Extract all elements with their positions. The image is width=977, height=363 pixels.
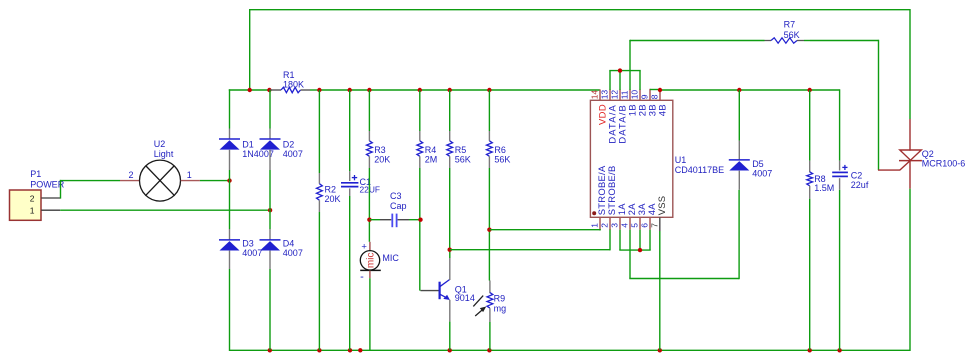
pin name 3A <box>636 203 647 216</box>
label R2 20K <box>325 185 341 205</box>
label D3 4007 <box>242 238 262 257</box>
label Q1 9014 <box>455 285 475 303</box>
wire Q1 emitter to ground <box>449 300 451 351</box>
capacitor C2 polarized <box>832 161 848 190</box>
lamp U2 <box>120 160 200 201</box>
wire node to U1 pin 2 <box>450 229 610 250</box>
svg-text:4007: 4007 <box>752 168 772 178</box>
pin number 9 <box>640 94 650 99</box>
wire pin 11 to R7 <box>629 41 631 90</box>
pin name STROBE/B <box>606 165 617 215</box>
pin number 12 <box>610 90 620 100</box>
wire R4 to Q1 base <box>419 168 421 291</box>
svg-text:56K: 56K <box>784 30 800 40</box>
svg-text:2M: 2M <box>425 154 438 164</box>
pin number 13 <box>600 90 610 100</box>
junction bottom at R8 <box>808 348 812 352</box>
pin 12 stub <box>619 89 621 100</box>
junction bottom at R9 <box>487 348 491 352</box>
label Q2 MCR100-6 <box>922 149 966 169</box>
pin 9 stub <box>649 89 651 101</box>
pin name 2B <box>637 104 648 116</box>
wire bridge right column top <box>269 90 271 129</box>
wire rail to R6 <box>488 90 490 131</box>
op-amp U1 CD40117BE body <box>590 100 672 217</box>
junction lamp wire at D1-D3 column <box>227 178 231 182</box>
wire between D1 and D3 <box>229 170 231 229</box>
svg-text:R7: R7 <box>784 20 796 30</box>
svg-text:D3: D3 <box>242 238 254 248</box>
svg-text:1: 1 <box>590 223 600 228</box>
wire rail to R8 <box>809 90 811 161</box>
resistor R9 photoresistor <box>473 281 493 323</box>
label R1 value 180K <box>283 70 304 90</box>
wire top net from bridge output to Q2 anode <box>250 9 910 119</box>
resistor R3 <box>367 131 373 168</box>
label R7 56K <box>784 20 800 41</box>
pin number 8 <box>650 94 660 99</box>
svg-text:56K: 56K <box>494 154 510 164</box>
junction R6 column / pin1 net <box>487 228 491 232</box>
pin 13 stub <box>609 89 611 100</box>
wire R8 to ground rail <box>809 199 811 350</box>
junction pin 5 tie <box>638 248 642 252</box>
pin 6 stub <box>649 217 651 229</box>
wire pin 1 stub riser <box>599 229 601 230</box>
svg-text:6: 6 <box>640 223 650 228</box>
pin 2 label of U2 <box>128 170 133 180</box>
pin name STROBE/A <box>596 165 607 215</box>
wire C2 to ground rail <box>839 190 841 351</box>
svg-text:Cap: Cap <box>390 201 407 211</box>
junction at D2 cathode on rail <box>267 88 271 92</box>
junction bottom at U1 VSS <box>658 348 662 352</box>
wire bridge left column top <box>229 89 231 128</box>
svg-text:12: 12 <box>610 90 620 100</box>
pin 1 label of U2 <box>187 170 192 180</box>
wire bottom ground rail <box>230 349 911 351</box>
svg-text:2: 2 <box>128 170 133 180</box>
wire R3 to C3 node and MIC <box>368 168 370 242</box>
svg-text:VSS: VSS <box>656 196 667 216</box>
diode D4 <box>260 229 281 269</box>
junction pin 8 on rail <box>658 88 662 92</box>
svg-text:4007: 4007 <box>283 149 303 159</box>
capacitor C3 <box>369 214 420 228</box>
svg-text:1: 1 <box>187 170 192 180</box>
junction rail at R8 <box>808 88 812 92</box>
wire P1 pin1 to bridge AC node <box>60 209 270 211</box>
wire R2 to ground rail <box>318 212 320 350</box>
svg-text:CD40117BE: CD40117BE <box>675 165 724 175</box>
svg-text:20K: 20K <box>374 154 390 164</box>
pin 4 stub <box>629 217 631 229</box>
wire rail to R3 <box>368 90 370 131</box>
svg-text:11: 11 <box>620 90 630 99</box>
wire R5 to Q1 collector node <box>449 168 451 250</box>
wire MIC to ground rail <box>369 278 371 350</box>
label MIC <box>382 253 399 263</box>
pin name DATA/A <box>607 104 618 144</box>
pin number 7 <box>649 223 659 228</box>
svg-text:+: + <box>361 241 367 252</box>
label R9 mg <box>494 293 507 313</box>
pin number 3 <box>610 223 620 228</box>
wire node to U1 pin 1 <box>489 229 600 230</box>
junction bottom at MIC column <box>358 348 362 352</box>
wire VDD rail left segment (bridge top) <box>229 89 271 91</box>
diode D5 <box>729 141 750 190</box>
label D5 4007 <box>752 159 772 178</box>
pin 5 stub <box>639 217 641 229</box>
pin 1 of P1 <box>30 205 60 215</box>
svg-text:-: - <box>360 271 364 283</box>
pin 11 stub <box>629 89 631 100</box>
svg-text:1.5M: 1.5M <box>814 183 834 193</box>
junction C3 right node at R4 <box>418 218 422 222</box>
wire between D2 and D4 <box>269 170 271 229</box>
pin number 11 <box>620 90 630 99</box>
label U1 refdes <box>675 155 724 175</box>
svg-text:R1: R1 <box>283 70 295 80</box>
pin number 5 <box>630 223 640 228</box>
label D1 1N4007 <box>242 140 274 160</box>
junction rail at R4 <box>418 88 422 92</box>
svg-text:2: 2 <box>30 193 35 203</box>
label R4 2M <box>425 145 438 165</box>
svg-text:4B: 4B <box>657 104 668 116</box>
wire rail to R2 <box>318 90 320 173</box>
svg-text:1: 1 <box>30 205 35 215</box>
junction rail at R3 <box>367 88 371 92</box>
wire R6 to R9 <box>488 168 490 281</box>
svg-text:14: 14 <box>590 90 600 100</box>
label R8 1.5M <box>814 174 834 193</box>
svg-text:3: 3 <box>610 223 620 228</box>
diode D1 <box>219 129 240 171</box>
pin name 4A <box>646 203 657 216</box>
svg-text:13: 13 <box>600 90 610 100</box>
wire rail to R4 <box>419 90 421 131</box>
pin 8 stub <box>659 89 661 100</box>
wire rail corner to C2 <box>839 89 841 160</box>
svg-text:R6: R6 <box>494 145 506 155</box>
svg-text:9014: 9014 <box>455 293 475 303</box>
junction rail at D5 <box>737 88 741 92</box>
junction at R1 left / top-wire tap <box>248 88 252 92</box>
resistor R2 <box>317 173 323 212</box>
wire rail to R5 <box>449 90 451 131</box>
svg-text:MCR100-6: MCR100-6 <box>922 159 966 169</box>
pin name VDD <box>597 104 608 125</box>
svg-text:R5: R5 <box>455 145 467 155</box>
wire rail to C1 <box>349 90 351 171</box>
wire P1 pin2 to lamp pin2 <box>60 180 120 199</box>
junction bottom at C2 <box>837 348 841 352</box>
pin 2 of P1 <box>30 193 61 203</box>
microphone MIC <box>360 241 381 283</box>
resistor R6 <box>487 131 493 168</box>
transistor Q1 <box>440 279 450 300</box>
svg-text:10: 10 <box>630 90 640 100</box>
label D2 4007 <box>283 140 303 160</box>
svg-text:R2: R2 <box>325 185 337 195</box>
capacitor C1 polarized <box>341 171 358 196</box>
pin name 1B <box>627 104 638 116</box>
junction bottom at Q1 emitter <box>448 348 452 352</box>
junction pin 12 tie <box>618 68 622 72</box>
junction Q1 collector / pin2 net <box>448 248 452 252</box>
transistor Q2 SCR <box>878 150 922 170</box>
junction bottom at C1 <box>348 348 352 352</box>
resistor R4 <box>417 131 423 168</box>
label R3 20K <box>374 145 390 165</box>
diode D3 <box>219 229 240 269</box>
label C2 22uf <box>851 171 869 190</box>
junction C3 left node <box>367 218 371 222</box>
svg-text:5: 5 <box>630 223 640 228</box>
pin name VSS <box>656 196 667 216</box>
resistor R8 <box>807 161 813 199</box>
wire pins 3-5-6 tie <box>619 230 650 250</box>
pin number 4 <box>620 223 630 228</box>
svg-text:56K: 56K <box>455 154 471 164</box>
pin 1 stub <box>599 217 601 229</box>
svg-text:D4: D4 <box>283 238 295 248</box>
svg-text:U2: U2 <box>154 139 166 149</box>
label P1 refdes <box>30 169 65 190</box>
wire pins 13-12-10 tie <box>609 71 640 90</box>
svg-text:R4: R4 <box>425 145 437 155</box>
junction bottom at D4 column <box>268 348 272 352</box>
pin name 4B <box>657 104 668 116</box>
svg-text:22uf: 22uf <box>851 180 869 190</box>
wire VDD rail mid segment <box>319 89 600 91</box>
pin name 3B <box>647 104 658 116</box>
svg-text:mic: mic <box>365 253 376 269</box>
svg-text:R9: R9 <box>494 293 506 303</box>
svg-text:Light: Light <box>154 149 174 159</box>
svg-text:4007: 4007 <box>242 248 262 258</box>
wire C1 to ground rail <box>349 196 351 350</box>
svg-text:4: 4 <box>620 223 630 228</box>
svg-text:Q2: Q2 <box>922 149 934 159</box>
pin 2 stub <box>609 217 611 229</box>
pin number 10 <box>630 90 640 100</box>
pin number 1 <box>590 223 600 228</box>
wire VDD rail right segment (pin8 to C2) <box>660 89 840 91</box>
junction rail at R6 <box>487 88 491 92</box>
svg-text:POWER: POWER <box>30 179 65 189</box>
pin name 2A <box>626 203 637 216</box>
label D4 4007 <box>283 238 303 257</box>
wire Q1 base lead <box>421 290 440 292</box>
svg-text:C3: C3 <box>390 191 402 201</box>
svg-text:D2: D2 <box>283 140 295 150</box>
wire pin 7 VSS to ground rail <box>659 231 661 350</box>
svg-text:MIC: MIC <box>382 253 399 263</box>
junction rail at C1 <box>348 88 352 92</box>
pin 14 VDD stub <box>599 89 601 100</box>
svg-text:mg: mg <box>494 303 507 313</box>
wire pin 4 to D5 anode <box>629 190 739 279</box>
svg-text:8: 8 <box>650 94 660 99</box>
svg-text:U1: U1 <box>675 155 687 165</box>
wire Q2 anode <box>909 119 911 151</box>
svg-text:R3: R3 <box>374 145 386 155</box>
pin name DATA/B <box>617 104 628 144</box>
pin number 6 <box>640 223 650 228</box>
svg-text:20K: 20K <box>325 194 341 204</box>
wire R7 to Q2 gate branch <box>810 40 879 170</box>
svg-text:1N4007: 1N4007 <box>242 149 274 159</box>
pin number 2 <box>600 223 610 228</box>
wire Q2 cathode <box>909 161 911 351</box>
junction P1 pin1 wire at D2-D4 column <box>268 208 272 212</box>
resistor R1 <box>269 87 319 92</box>
svg-text:7: 7 <box>649 223 659 228</box>
wire pin9 tie to pin8 <box>650 89 661 91</box>
label R5 56K <box>455 145 471 165</box>
wire rail to D5 <box>738 90 740 141</box>
wire R9 to ground rail <box>489 322 491 350</box>
diode D2 <box>260 129 281 171</box>
wire lamp pin1 to bridge <box>200 180 230 182</box>
svg-text:180K: 180K <box>283 80 304 90</box>
label C3 Cap <box>390 191 407 211</box>
pin 10 stub <box>639 89 641 100</box>
connector P1 <box>10 190 42 220</box>
svg-text:9: 9 <box>640 94 650 99</box>
svg-text:D1: D1 <box>242 140 254 150</box>
junction rail at R5 <box>448 88 452 92</box>
label C1 22UF <box>360 177 380 194</box>
resistor R7 <box>630 38 810 43</box>
svg-text:2: 2 <box>600 223 610 228</box>
wire D4 anode to ground rail <box>269 269 271 350</box>
pin 7 VSS stub <box>659 217 661 231</box>
wire D3 anode to ground rail <box>229 269 231 351</box>
resistor R5 <box>447 131 453 168</box>
label U2 Light <box>154 139 174 159</box>
pin number 14 <box>590 90 600 100</box>
label R6 56K <box>494 145 510 165</box>
pin 3 stub <box>619 217 621 229</box>
svg-text:P1: P1 <box>30 169 41 179</box>
pin name 1A <box>616 203 627 216</box>
junction rail at R2 <box>317 88 321 92</box>
wire Q1 collector <box>449 250 451 280</box>
junction bottom at R2 <box>317 348 321 352</box>
svg-text:4007: 4007 <box>283 248 303 258</box>
